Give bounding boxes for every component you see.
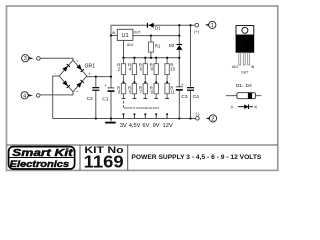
- Smart Kit Electronics logo: [9, 147, 75, 169]
- svg-text:4,5V: 4,5V: [129, 123, 141, 129]
- capacitor C3 electrolytic: [176, 82, 188, 100]
- resistor R7: [139, 83, 148, 98]
- wire C1 column: [110, 77, 112, 88]
- node junction R6/R7: [144, 81, 146, 83]
- svg-text:1: 1: [211, 23, 214, 29]
- svg-text:D2: D2: [169, 43, 175, 48]
- svg-text:ADJ: ADJ: [232, 65, 239, 69]
- node junction R8/R9: [155, 81, 157, 83]
- svg-text:(+): (+): [194, 29, 200, 34]
- svg-text:C2: C2: [87, 96, 94, 102]
- resistor R8: [150, 58, 159, 84]
- diode symbol legend A K: [230, 104, 257, 109]
- svg-text:Electronics: Electronics: [10, 158, 70, 169]
- svg-text:ADJ: ADJ: [127, 43, 134, 47]
- wire OUT riser upper: [178, 25, 180, 44]
- title block vertical dividers: [79, 145, 81, 170]
- wire U1 OUT to riser: [133, 35, 179, 37]
- svg-text:LM: LM: [239, 41, 244, 45]
- svg-text:A: A: [230, 105, 233, 110]
- terminal 4: [21, 92, 40, 100]
- kit number cell: [84, 145, 125, 171]
- svg-text:1169: 1169: [84, 151, 124, 171]
- svg-text:12V: 12V: [163, 123, 173, 129]
- svg-text:4: 4: [23, 93, 26, 99]
- resistor R3: [117, 83, 126, 98]
- svg-text:D1: D1: [155, 26, 161, 31]
- wire U1 ADJ pin: [123, 40, 125, 57]
- wire terminal4 to bridge bottom: [40, 92, 73, 95]
- wire plus rail: [87, 76, 111, 78]
- wire IN riser: [110, 25, 112, 76]
- resistor R6: [139, 58, 148, 84]
- svg-text:R1: R1: [155, 44, 161, 49]
- resistor R4: [128, 58, 137, 84]
- svg-text:3V: 3V: [120, 123, 127, 129]
- wire OUT riser lower / C3 column: [178, 50, 180, 87]
- ground bar: [105, 122, 116, 124]
- switch contact 4: [154, 99, 158, 119]
- wire R1 stems: [150, 36, 152, 42]
- resistor R10: [165, 58, 176, 84]
- switch contact 1: [122, 99, 126, 119]
- svg-text:3: 3: [24, 56, 27, 62]
- capacitor C1 electrolytic: [102, 83, 114, 102]
- svg-text:C4: C4: [193, 94, 200, 100]
- switch contact 3: [143, 99, 147, 119]
- switch wiper dashed (3V position): [123, 101, 125, 109]
- wire ADJ rail: [124, 57, 180, 59]
- diode D2: [169, 43, 183, 50]
- wire ground rail: [53, 118, 196, 120]
- terminal 3: [22, 55, 41, 63]
- svg-text:D1...D4: D1...D4: [236, 83, 252, 88]
- switch contact 5: [165, 99, 169, 119]
- resistor R2: [117, 58, 126, 84]
- terminal 2 (-): [196, 111, 217, 123]
- border frame: [7, 6, 278, 170]
- node junction R10/R11: [166, 81, 168, 83]
- regulator U1: [112, 29, 141, 47]
- TO-220 package U1 drawing: [232, 26, 255, 75]
- svg-text:POWER SUPPLY 3 - 4,5 - 6 - 9 -: POWER SUPPLY 3 - 4,5 - 6 - 9 - 12 VOLTS: [131, 154, 262, 161]
- svg-text:2: 2: [212, 116, 215, 122]
- terminal 1 (+): [194, 21, 216, 34]
- resistor R5: [128, 83, 137, 98]
- svg-text:OUT: OUT: [241, 70, 248, 74]
- bridge rectifier GR1: [54, 59, 95, 94]
- svg-text:GR1: GR1: [85, 63, 96, 69]
- svg-text:K: K: [254, 105, 257, 110]
- wire C4 riser: [190, 25, 192, 87]
- node junction R2/R3: [122, 81, 124, 83]
- svg-text:OUTPUT VOLTAGE ADJUST: OUTPUT VOLTAGE ADJUST: [124, 106, 159, 110]
- diode D1: [147, 23, 161, 31]
- svg-text:U1: U1: [122, 33, 129, 39]
- title block separator: [7, 144, 278, 146]
- svg-text:IN: IN: [251, 65, 255, 69]
- diode body drawing: [226, 93, 262, 99]
- svg-text:317: 317: [239, 45, 245, 49]
- svg-text:C3: C3: [181, 94, 188, 100]
- svg-text:9V: 9V: [153, 123, 160, 129]
- resistor R1: [148, 42, 161, 52]
- svg-text:OUT: OUT: [134, 31, 141, 35]
- junction dots: [95, 24, 192, 120]
- svg-text:C1: C1: [102, 96, 109, 102]
- switch contact 2: [133, 99, 137, 119]
- voltage labels: [120, 123, 173, 129]
- wire terminal3 to bridge top: [40, 58, 73, 60]
- wire C2 column: [95, 77, 97, 87]
- resistor R9: [150, 83, 159, 98]
- capacitor C2: [87, 87, 100, 102]
- capacitor C4: [187, 87, 199, 100]
- svg-text:11: 11: [170, 89, 175, 94]
- wire bridge left to ground: [53, 76, 60, 119]
- wire top rail (OUT node): [111, 24, 195, 26]
- wire U1 IN stub: [111, 35, 117, 37]
- node junction R4/R5: [133, 81, 135, 83]
- svg-text:6V: 6V: [142, 123, 149, 129]
- svg-text:10: 10: [170, 67, 175, 72]
- resistor R11: [165, 83, 176, 98]
